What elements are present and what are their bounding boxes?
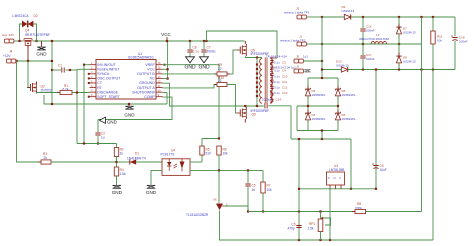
svg-text:GND: GND (146, 190, 157, 195)
svg-text:GND: GND (36, 52, 47, 57)
junction +12V x52 (51, 60, 53, 62)
resistor R8 200k (352, 209, 369, 213)
capacitor C8 0.1u (187, 50, 192, 52)
wire C7 to ground (203, 53, 205, 57)
connector J3 (297, 15, 306, 19)
svg-text:SYNC#: SYNC# (97, 72, 109, 76)
pin end marker U1 left pin 3 (88, 73, 90, 75)
transistor Q2 2N7002 (27, 82, 37, 94)
wire mid row drop (296, 106, 298, 131)
junction low rail R11 (432, 68, 434, 70)
svg-text:2000u: 2000u (207, 50, 216, 54)
junction primary tap 4 (256, 77, 258, 79)
svg-text:OUTPUT B: OUTPUT B (137, 72, 155, 76)
wire RP1 bottom (320, 232, 322, 241)
svg-text:TR 68:8:14 4.54: TR 68:8:14 4.54 (266, 54, 287, 58)
svg-text:2.5k: 2.5k (308, 226, 314, 230)
capacitor snubber 1 (270, 61, 273, 63)
junction rectifier top (321, 77, 323, 79)
junction J1 node (321, 43, 323, 45)
TVS diode D2 1.5KE24CA (22, 21, 33, 28)
diode D8 US2M-13 (396, 53, 401, 67)
junction C7 top (203, 40, 205, 42)
wire to D7 (398, 17, 400, 27)
connector J1 (297, 42, 306, 46)
wire R6 bottom (218, 155, 220, 170)
ground DGND symbol (100, 117, 106, 123)
diode D6 1N5819PL (335, 110, 340, 124)
junction bottom rail U3 (329, 239, 331, 241)
capacitor snubber 3 (270, 74, 273, 76)
wire R3 to feedback node (51, 161, 117, 163)
arrow RP1 wiper (321, 217, 323, 219)
wire R9 to Q5 gate (227, 50, 237, 74)
diode D10 US2M-13 (341, 67, 347, 72)
svg-text:1N5819PL: 1N5819PL (342, 93, 357, 97)
wire snubber cap 5 top (271, 84, 273, 86)
ground GND below R4 (113, 185, 121, 188)
ground GND below C8 (186, 57, 195, 63)
svg-text:+12V: +12V (3, 54, 11, 58)
junction primary tap 8 (256, 95, 258, 97)
wire RP1 top (320, 212, 322, 220)
capacitor snubber 2 (270, 67, 273, 69)
svg-text:US2M-13: US2M-13 (403, 60, 416, 64)
junction primary tap 2 (256, 68, 258, 70)
junction VCC rail x52 (51, 40, 53, 42)
wire node to D1 (117, 161, 130, 163)
pin end marker U1 left pin 5 (88, 82, 90, 84)
junction C2 bottom (97, 142, 99, 144)
capacitor C18 100uF (451, 36, 458, 41)
resistor R9 22 (214, 72, 230, 76)
svg-text:GND: GND (184, 64, 196, 70)
wire U3 input column (350, 139, 352, 189)
svg-text:0.1u: 0.1u (274, 80, 280, 84)
wire secondary tap 8 (270, 102, 272, 104)
junction mid rail D7/D8 (398, 43, 400, 45)
wire snubber cap 5 bottom (271, 89, 273, 91)
wire right column B (432, 70, 434, 241)
ground GND at J2 (305, 70, 311, 73)
wire rectifier bottom row (297, 130, 338, 132)
wire opto collector to R5 (190, 161, 202, 163)
capacitor C9 10uF (372, 164, 379, 169)
svg-text:D1: D1 (135, 152, 139, 156)
svg-text:1N5819PL: 1N5819PL (312, 93, 327, 97)
junction C9 bottom (375, 188, 377, 190)
junction aux/sense (298, 138, 300, 140)
resistor R3 2k (38, 160, 54, 164)
optocoupler U4 PC817 (162, 159, 190, 176)
shunt regulator U6 TL431 (216, 204, 225, 210)
resistor R11 10k (431, 31, 435, 44)
diode D3 1N5819PL (305, 86, 310, 100)
wire to Q2 gate (28, 61, 31, 88)
capacitor C7 2000u (201, 50, 206, 52)
wire rectifier mid drop (321, 131, 323, 140)
junction primary bottom tap (256, 105, 258, 107)
connector J5 (294, 59, 303, 63)
svg-text:SHUTDOWN#: SHUTDOWN# (132, 90, 155, 94)
capacitor C1 (62, 67, 64, 72)
pin 9 stub of U1 (156, 96, 163, 98)
junction Q4 gate node (27, 60, 29, 62)
pin 15 stub of U1 (156, 68, 163, 70)
wire snubber cap 2 bottom (271, 69, 273, 71)
pin 10 stub of U1 (156, 91, 163, 93)
svg-text:0.1u: 0.1u (274, 91, 280, 95)
svg-text:VREF: VREF (145, 63, 154, 67)
wire to TL431 cathode (218, 170, 220, 203)
wire rectifier input column (321, 17, 323, 78)
junction primary top tap (256, 56, 258, 58)
wire Q2 source to shutdown run (44, 95, 167, 104)
svg-text:10k: 10k (223, 152, 229, 156)
regulator U3 LM78L05 (327, 172, 345, 189)
svg-text:C13: C13 (282, 91, 288, 95)
wire to D8 (398, 44, 400, 56)
wire Q5 source to primary (245, 56, 262, 58)
wire opto emitter row (190, 169, 263, 171)
svg-text:TL431AGDBZR: TL431AGDBZR (186, 213, 209, 217)
junction bottom rail RP1 (319, 239, 321, 241)
wire R5 bottom (201, 155, 203, 162)
wire VREF to divider column (163, 64, 220, 66)
wire J2 to ground (304, 70, 305, 72)
ground GND below U1 (125, 106, 133, 109)
wire sense row right (366, 211, 422, 213)
wire snubber cap 1 bottom (271, 63, 273, 65)
wire Q2 to R1 (37, 92, 61, 95)
diode D9 US2M-13 (344, 14, 350, 19)
wire feedback row (77, 143, 117, 145)
svg-text:GND: GND (124, 113, 135, 118)
junction emitter row (218, 169, 220, 171)
svg-text:G: G (334, 176, 336, 180)
svg-text:100nF: 100nF (366, 29, 375, 33)
wire R5 top stub (201, 139, 203, 147)
transformer T1 core (265, 58, 267, 104)
svg-text:J4: J4 (9, 50, 13, 54)
junction mid rail C16/C17 (362, 43, 364, 45)
wire C5 down (247, 187, 249, 212)
svg-text:100nF: 100nF (366, 57, 375, 61)
pin 16 stub of U1 (156, 64, 163, 66)
svg-text:0.1u: 0.1u (274, 75, 280, 79)
svg-text:0.1u: 0.1u (274, 68, 280, 72)
wire U1 pin 15 to VCC (163, 68, 168, 70)
resistor R4 1.5k (114, 167, 118, 176)
inductor L1 (371, 41, 387, 44)
resistor R2 1k (114, 148, 118, 157)
wire snubber cap 6 bottom (271, 95, 273, 97)
junction VREF col meets R6 (218, 137, 220, 139)
wire C2 down (97, 136, 99, 144)
junction rail D7 (398, 16, 400, 18)
svg-text:470p: 470p (288, 227, 295, 231)
capacitor C6 470p (296, 226, 301, 228)
junction low rail D8 (398, 68, 400, 70)
pin 6 stub of U1 (90, 87, 97, 89)
pin 4 stub of U1 (90, 77, 97, 79)
junction C1 right (69, 69, 71, 71)
svg-text:IRLR7152TRPBF: IRLR7152TRPBF (25, 33, 50, 37)
junction mid row D3 (307, 105, 309, 107)
wire D1 to opto anode (136, 161, 162, 163)
svg-text:1N5819PL: 1N5819PL (312, 117, 327, 121)
connector -12V input (5, 39, 14, 43)
wire snubber cap 4 bottom (271, 82, 273, 84)
wire D2 left leg (20, 24, 23, 41)
svg-text:VC: VC (150, 77, 155, 81)
pin 3 stub of U1 (90, 73, 97, 75)
svg-text:US2M-13: US2M-13 (336, 63, 349, 67)
junction primary tap 3 (256, 72, 258, 74)
wire to C17 (362, 44, 364, 55)
junction ground stub (128, 103, 130, 105)
wire mid rail (322, 43, 422, 45)
junction C5 bottom (247, 210, 249, 212)
svg-text:C1: C1 (58, 63, 62, 67)
junction low rail x421 (420, 68, 422, 70)
svg-text:GND: GND (198, 64, 210, 70)
wire noninv feedback column (76, 69, 78, 143)
svg-text:INDUCTOR 25A17NM: INDUCTOR 25A17NM (359, 37, 389, 41)
junction rectifier output (321, 129, 323, 131)
junction Q4 drain node (35, 40, 37, 42)
wire R1 to U1 pin 7 (72, 92, 90, 94)
capacitor C17 100nF (360, 56, 365, 58)
svg-text:510: 510 (206, 152, 212, 156)
diode D5 1N5819PL (335, 86, 340, 100)
resistor R7 10k (261, 182, 265, 193)
svg-text:PC817TS: PC817TS (161, 153, 175, 157)
wire to C7 (203, 41, 205, 49)
wire Q4 gate drop (27, 46, 29, 61)
junction rail branch (205, 40, 207, 42)
svg-text:1u: 1u (101, 135, 105, 139)
wire U3 pin row (299, 188, 376, 190)
svg-text:10uF: 10uF (380, 168, 387, 172)
svg-text:tesnica 1 tipka TP1: tesnica 1 tipka TP1 (284, 10, 310, 14)
svg-text:INV.IN/OUT: INV.IN/OUT (97, 63, 116, 67)
svg-text:C12: C12 (282, 86, 288, 90)
wire secondary tap 3 (270, 70, 272, 72)
wire C14 to column (268, 105, 291, 107)
wire R10 to Q6 gate (227, 85, 237, 114)
wire D4 down (307, 120, 309, 131)
wire D5 to D6 (337, 96, 339, 113)
svg-text:1N5819PL: 1N5819PL (342, 117, 357, 121)
resistor R6 10k (217, 146, 221, 155)
diode D4 1N5819PL (305, 110, 310, 124)
wire Q5 drain (244, 41, 246, 44)
junction aux/rect (321, 138, 323, 140)
junction C1 left (51, 69, 53, 71)
junction C5 top (247, 169, 249, 171)
wire VCC rail (33, 40, 245, 42)
transistor Q4 IRLR7152TRPBF (24, 39, 32, 48)
wire secondary tap 1 (270, 57, 277, 59)
wire snubber cap 7 bottom (271, 101, 273, 103)
wire to C1 (52, 69, 61, 71)
wire D3 to D4 (307, 96, 309, 113)
junction sense/RP1 (319, 210, 321, 212)
capacitor snubber 5 (270, 87, 273, 89)
svg-text:0.1u: 0.1u (274, 61, 280, 65)
svg-text:D2: D2 (34, 14, 38, 18)
wire to C8 (189, 41, 191, 49)
junction primary tap 6 (256, 86, 258, 88)
wire VCC stub (166, 37, 168, 41)
wire primary tap column (256, 58, 258, 107)
svg-text:J5: J5 (296, 54, 300, 58)
resistor R10 22 (214, 83, 230, 87)
wire left rail to R3 (17, 61, 42, 162)
junction J5 node (321, 60, 323, 62)
diode D7 US2M-13 (396, 24, 401, 38)
pin 11 stub of U1 (156, 87, 163, 89)
pin 2 stub of U1 (90, 68, 97, 70)
junction mid row D5 (337, 105, 339, 107)
svg-text:COMP: COMP (144, 95, 155, 99)
wire to C16 (362, 17, 364, 28)
junction U3 input (350, 188, 352, 190)
diode D1 1N4148W (130, 159, 136, 164)
svg-text:1u1: 1u1 (303, 54, 308, 58)
wire snubber cap 3 top (271, 71, 273, 73)
wire snubber cap 3 bottom (271, 76, 273, 78)
ground GND near Q4 (37, 47, 45, 50)
wire rectifier top row (308, 77, 338, 79)
wire C14 neg column (290, 106, 292, 139)
wire Q6 source stub (244, 119, 246, 123)
pin 1 stub of U1 (90, 64, 97, 66)
wire snubber cap 6 top (271, 91, 273, 93)
junction primary tap 7 (256, 90, 258, 92)
wire U1 ground pin run (163, 83, 264, 106)
junction pin13 VC (167, 78, 169, 80)
wire C17 down (362, 59, 364, 70)
pin 12 stub of U1 (156, 82, 163, 84)
wire U3 ground to bottom rail (329, 189, 331, 240)
svg-text:VCC: VCC (147, 67, 155, 71)
wire to D3 (307, 78, 309, 89)
svg-text:10k: 10k (267, 188, 273, 192)
wire secondary tap 5 (270, 83, 272, 85)
wire x52 branch (51, 41, 53, 104)
junction primary tap 5 (256, 81, 258, 83)
wire to U1 pin 2 (77, 68, 90, 70)
svg-text:C3: C3 (282, 61, 286, 65)
capacitor snubber 7 (270, 99, 273, 101)
wire VCC drop to pins 15/13 (167, 41, 169, 79)
capacitor C2 1u (95, 133, 100, 135)
junction Q4 source node (18, 40, 20, 42)
svg-text:J2: J2 (296, 65, 300, 69)
resistor R5 510 (200, 146, 204, 155)
wire R5 R6 top row (202, 138, 219, 140)
capacitor C14 1000uF (265, 103, 267, 108)
junction U1 pin1 node (83, 64, 85, 66)
wire to R2 (116, 144, 118, 148)
junction rail C16 (362, 16, 364, 18)
connector J4 +12V (7, 59, 16, 63)
potentiometer RP1 2.5k (318, 219, 323, 232)
wire C16 down (362, 32, 364, 44)
wire secondary tap 2 (270, 64, 272, 66)
svg-text:C11: C11 (282, 80, 287, 84)
wire secondary tap 7 (270, 96, 272, 98)
wire to R11 (432, 17, 434, 31)
junction sense/C6 (298, 210, 300, 212)
wire opto cathode to ground (151, 170, 162, 185)
svg-text:0.1u: 0.1u (274, 86, 280, 90)
wire to R7 (262, 170, 264, 182)
svg-text:US2M-13: US2M-13 (403, 31, 416, 35)
svg-text:OSC.OUTPUT: OSC.OUTPUT (97, 77, 121, 81)
wire VREF column down (218, 65, 220, 139)
wire low output rail (348, 69, 455, 71)
wire snubber cap 2 top (271, 65, 273, 67)
svg-text:DISCHARGE: DISCHARGE (97, 90, 118, 94)
wire output sense column (298, 139, 300, 240)
junction J3 node (321, 16, 323, 18)
wire to C5 (247, 170, 249, 183)
capacitor C5 1u (245, 184, 250, 186)
wire C1 to noninv node (66, 69, 78, 71)
pin 5 stub of U1 (90, 82, 97, 84)
wire to D5 (337, 78, 339, 89)
wire inv feedback column (83, 65, 85, 144)
svg-text:GND: GND (107, 119, 117, 124)
svg-text:2k: 2k (44, 156, 48, 160)
junction rail R11 (432, 16, 434, 18)
wire snubber cap 7 top (271, 97, 273, 99)
capacitor snubber 6 (270, 93, 273, 95)
svg-text:100uF: 100uF (459, 40, 468, 44)
wire Q6 drain (244, 106, 246, 107)
pin end marker U1 pin 16 (164, 64, 166, 66)
svg-text:SOFT_START: SOFT_START (97, 95, 120, 99)
svg-text:C10: C10 (282, 75, 288, 79)
junction x52 meets shutdown run (51, 103, 53, 105)
wire top output rail (351, 16, 455, 18)
wire TL431 ref to divider (225, 206, 248, 212)
transformer T1 secondary winding (270, 58, 272, 103)
wire J4 +12V feed (17, 60, 53, 62)
wire D2 right leg (33, 24, 36, 41)
wire U1 OUTPUT B to R9 (163, 73, 218, 75)
junction fb node (115, 161, 117, 163)
svg-text:C14: C14 (276, 97, 282, 101)
wire R7 down (262, 193, 264, 212)
ground GND below opto (147, 185, 155, 188)
svg-text:US2M-13: US2M-13 (342, 9, 355, 13)
capacitor snubber 4 (270, 80, 273, 82)
wire D8 down (398, 63, 400, 70)
transistor Q5 IRF3205PBF (237, 44, 247, 56)
svg-text:2N7002: 2N7002 (41, 89, 52, 93)
svg-text:1k: 1k (120, 152, 124, 156)
ground GND below C7 (200, 57, 209, 63)
wire J1 to node (307, 43, 322, 45)
svg-text:1u: 1u (252, 188, 256, 192)
capacitor C16 100nF (360, 29, 365, 31)
wire to U1 pin 1 (84, 64, 90, 66)
junction Q6 drain (244, 105, 246, 107)
